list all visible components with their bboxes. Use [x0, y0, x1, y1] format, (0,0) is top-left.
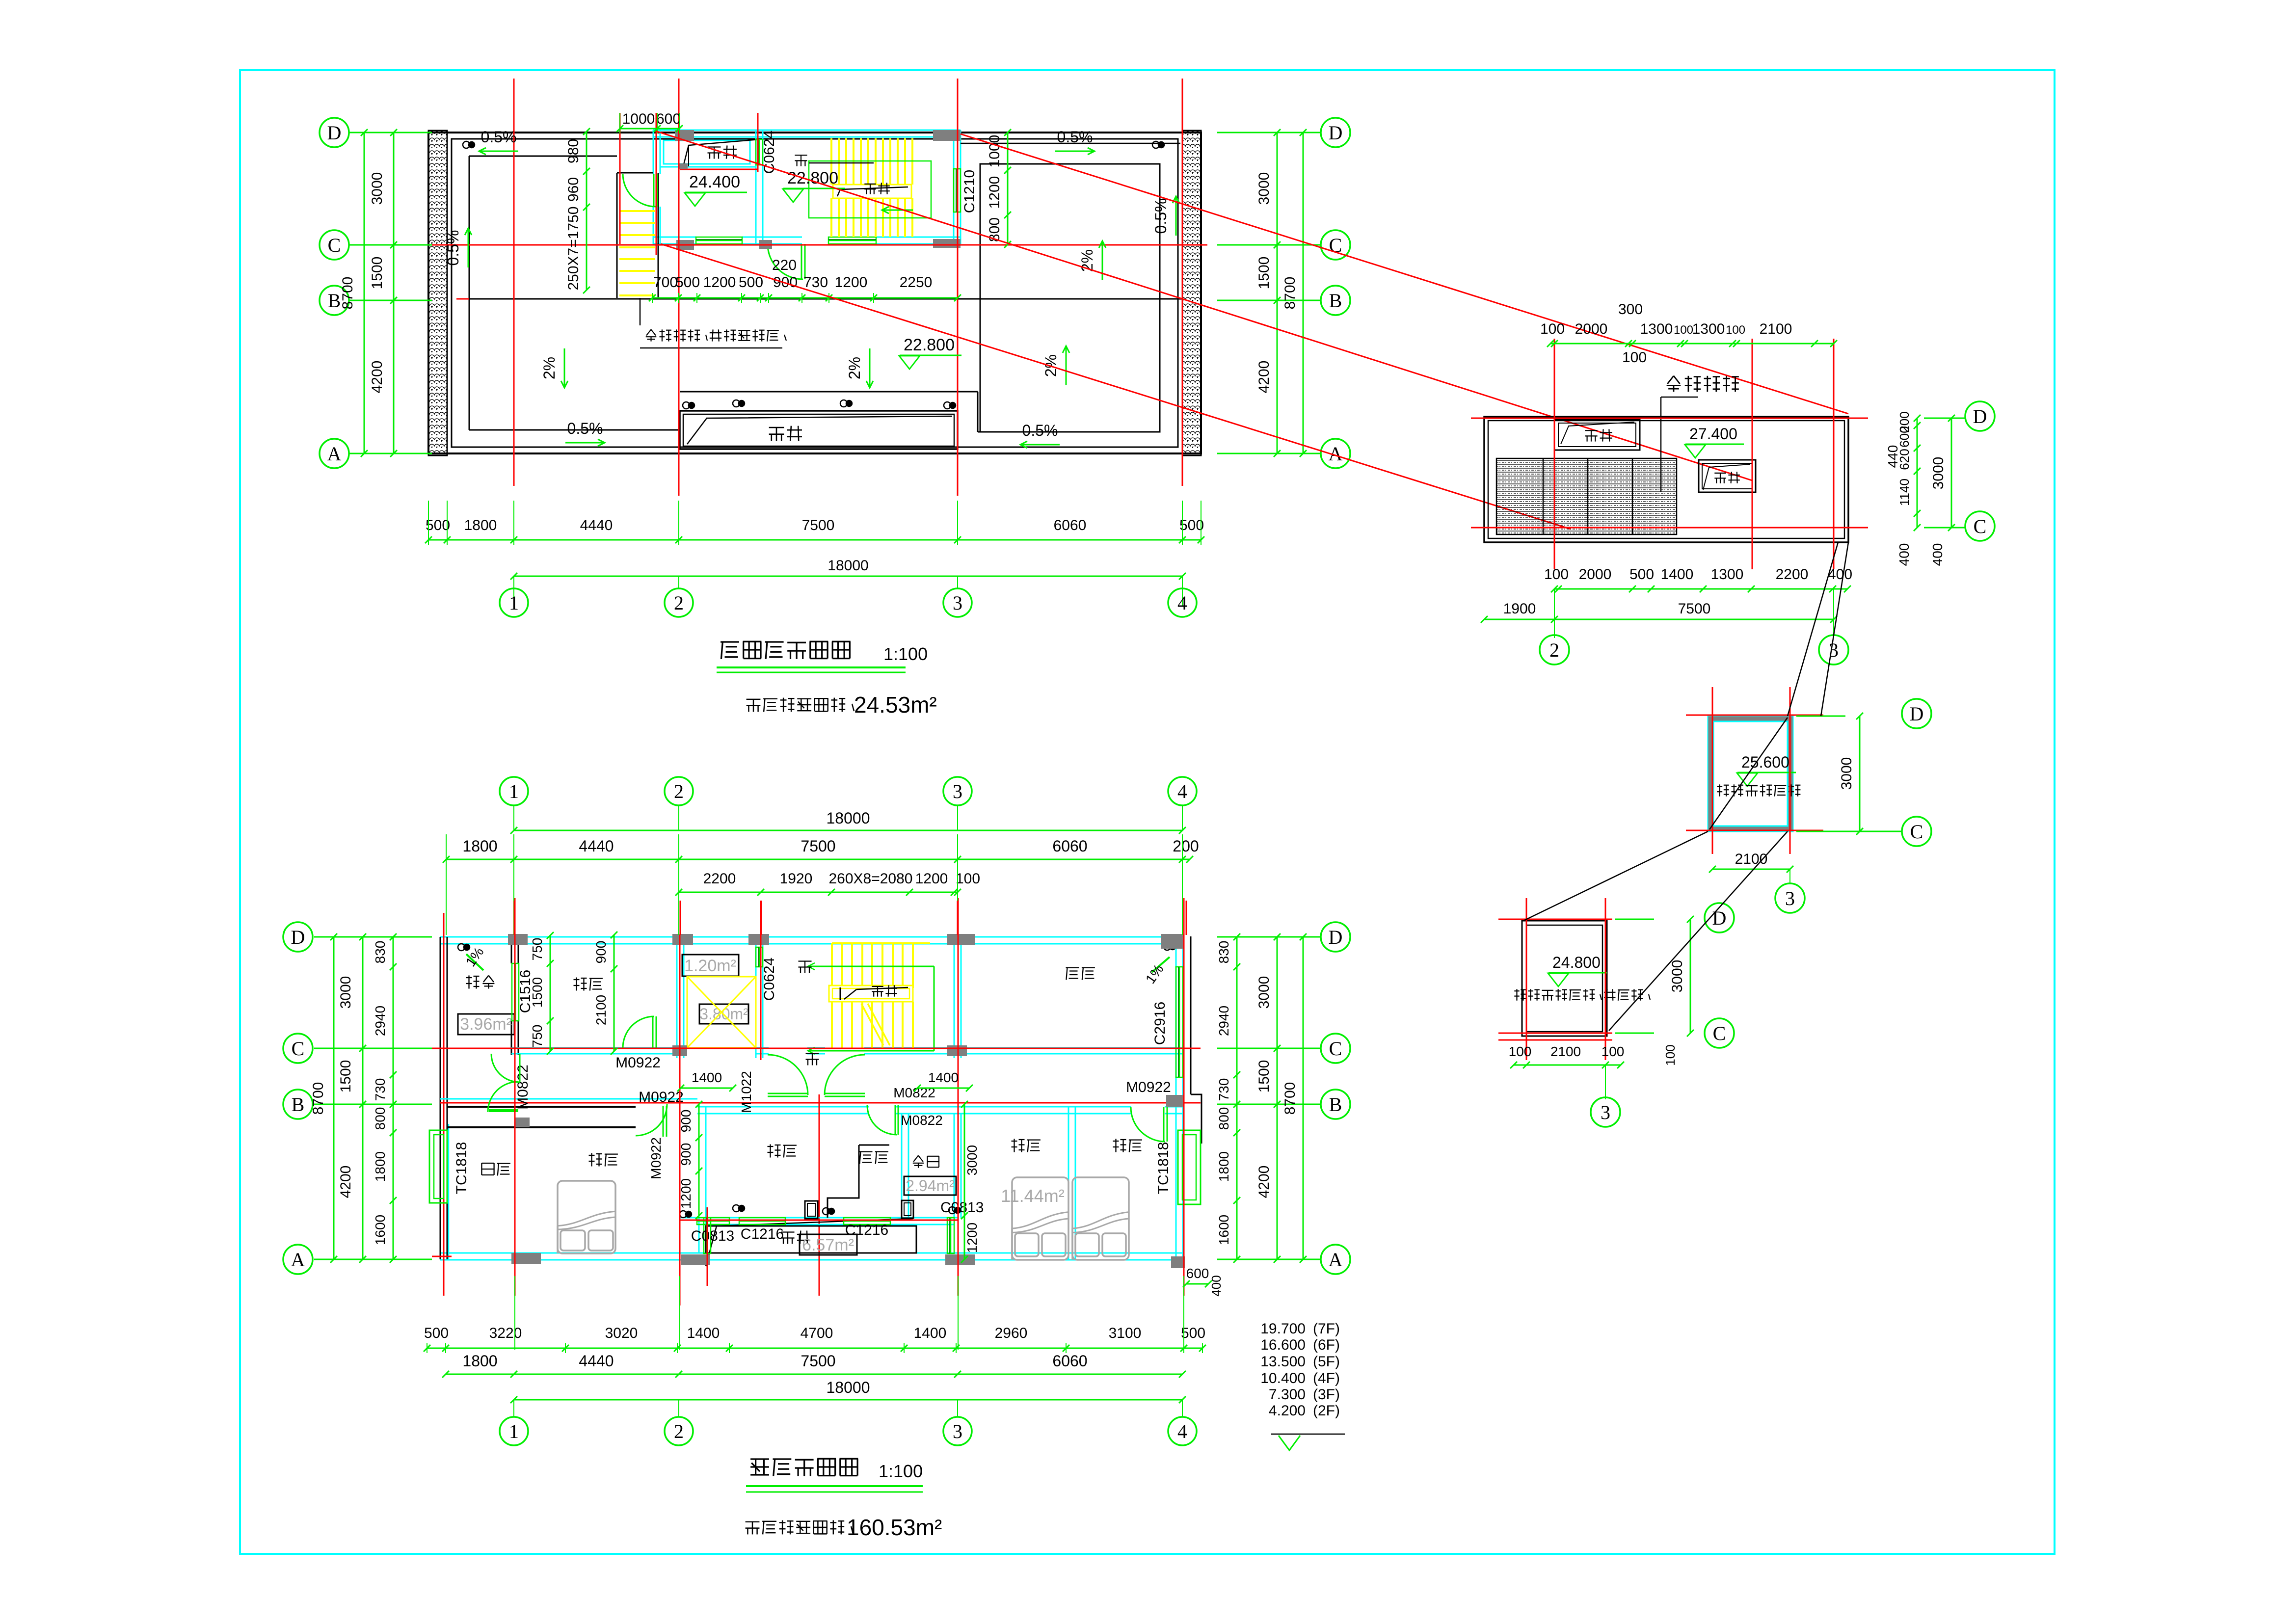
svg-text:4200: 4200	[369, 361, 385, 394]
svg-text:4: 4	[1177, 1420, 1187, 1442]
svg-text:B: B	[1329, 290, 1342, 312]
svg-text:440: 440	[1885, 445, 1900, 468]
svg-text:800: 800	[1216, 1107, 1231, 1130]
svg-text:2100: 2100	[1550, 1044, 1581, 1059]
svg-text:2%: 2%	[846, 357, 863, 379]
svg-text:750: 750	[530, 1025, 545, 1048]
svg-text:2: 2	[674, 780, 684, 802]
svg-text:C0813: C0813	[691, 1228, 734, 1244]
svg-text:400: 400	[1896, 543, 1912, 566]
svg-text:100: 100	[1602, 1044, 1625, 1059]
svg-text:100: 100	[1726, 323, 1745, 337]
svg-text:1400: 1400	[928, 1070, 959, 1085]
svg-text:C: C	[292, 1038, 305, 1060]
svg-text:A: A	[1329, 1249, 1343, 1271]
svg-text:900: 900	[678, 1143, 694, 1166]
svg-text:100: 100	[1544, 566, 1569, 583]
svg-text:4200: 4200	[1256, 1166, 1272, 1198]
svg-text:7500: 7500	[801, 837, 835, 855]
svg-text:1600: 1600	[373, 1215, 388, 1245]
svg-text:8700: 8700	[1282, 277, 1298, 310]
svg-text:18000: 18000	[828, 558, 868, 574]
svg-text:2: 2	[674, 1420, 684, 1442]
svg-text:1: 1	[509, 1420, 519, 1442]
svg-text:11.44m²: 11.44m²	[1001, 1186, 1064, 1206]
svg-text:2250: 2250	[900, 274, 933, 291]
svg-text:0.5%: 0.5%	[1152, 198, 1170, 234]
svg-text:3000: 3000	[1256, 172, 1272, 205]
svg-text:900: 900	[678, 1110, 694, 1133]
svg-text:3100: 3100	[1109, 1325, 1142, 1341]
svg-text:(3F): (3F)	[1313, 1386, 1340, 1403]
svg-text:1%: 1%	[1143, 961, 1167, 986]
svg-text:3000: 3000	[338, 976, 354, 1009]
svg-text:(5F): (5F)	[1313, 1354, 1340, 1370]
svg-text:2%: 2%	[540, 357, 558, 379]
svg-text:3000: 3000	[1930, 457, 1947, 490]
svg-text:1000: 1000	[622, 111, 655, 127]
svg-text:160.53m²: 160.53m²	[847, 1515, 942, 1540]
svg-text:2940: 2940	[373, 1006, 388, 1036]
svg-text:2100: 2100	[593, 995, 609, 1025]
svg-text:600: 600	[1897, 426, 1912, 447]
svg-text:D: D	[1712, 907, 1727, 929]
svg-text:1800: 1800	[1216, 1151, 1231, 1182]
svg-text:8700: 8700	[310, 1082, 326, 1115]
svg-text:100: 100	[1663, 1044, 1678, 1065]
svg-text:0.5%: 0.5%	[444, 230, 462, 266]
svg-text:0.5%: 0.5%	[1022, 422, 1058, 439]
svg-text:1200: 1200	[703, 274, 736, 291]
svg-text:1: 1	[509, 592, 519, 614]
svg-text:1500: 1500	[530, 977, 545, 1008]
svg-text:500: 500	[1179, 517, 1204, 533]
svg-text:7500: 7500	[802, 517, 835, 533]
svg-text:4200: 4200	[338, 1166, 354, 1198]
svg-text:3000: 3000	[1669, 960, 1685, 993]
svg-text:(7F): (7F)	[1313, 1321, 1340, 1337]
svg-text:7500: 7500	[1678, 601, 1711, 617]
svg-text:830: 830	[373, 941, 388, 964]
svg-text:1: 1	[509, 780, 519, 802]
svg-text:800: 800	[373, 1107, 388, 1130]
svg-text:18000: 18000	[827, 1379, 870, 1396]
svg-text:600: 600	[656, 111, 681, 127]
svg-text:B: B	[292, 1093, 305, 1116]
svg-text:24.400: 24.400	[689, 173, 740, 191]
svg-text:1500: 1500	[1256, 257, 1272, 290]
svg-text:200: 200	[1173, 837, 1199, 855]
svg-text:500: 500	[739, 274, 763, 291]
svg-text:D: D	[1329, 122, 1343, 144]
svg-text:2: 2	[1549, 639, 1559, 661]
svg-text:D: D	[1329, 926, 1343, 948]
svg-text:3000: 3000	[1256, 976, 1272, 1009]
svg-text:3: 3	[1785, 887, 1795, 909]
svg-text:4700: 4700	[801, 1325, 833, 1341]
svg-text:100: 100	[1622, 349, 1647, 366]
svg-text:M0922: M0922	[648, 1137, 664, 1179]
svg-text:C: C	[1974, 515, 1987, 537]
svg-text:1400: 1400	[687, 1325, 720, 1341]
svg-text:D: D	[1973, 405, 1987, 427]
svg-text:6060: 6060	[1054, 517, 1087, 533]
svg-text:C0624: C0624	[761, 958, 777, 1001]
svg-text:500: 500	[675, 274, 700, 291]
svg-text:220: 220	[772, 257, 797, 273]
svg-text:980: 980	[565, 139, 582, 163]
svg-text:4440: 4440	[579, 837, 614, 855]
svg-text:D: D	[327, 122, 342, 144]
svg-text:10.400: 10.400	[1260, 1370, 1306, 1386]
svg-text:1900: 1900	[1503, 601, 1536, 617]
svg-text:1500: 1500	[369, 257, 385, 290]
svg-text:600: 600	[1186, 1266, 1209, 1281]
svg-text:1300: 1300	[1640, 321, 1673, 337]
svg-text:6060: 6060	[1052, 1352, 1087, 1370]
svg-text:3: 3	[953, 592, 962, 614]
svg-text:400: 400	[1930, 543, 1945, 566]
svg-text:100: 100	[1540, 321, 1565, 337]
svg-text:1200: 1200	[987, 176, 1003, 209]
svg-text:1200: 1200	[964, 1223, 980, 1253]
svg-text:(4F): (4F)	[1313, 1370, 1340, 1386]
svg-text:1400: 1400	[914, 1325, 947, 1341]
svg-text:1500: 1500	[338, 1060, 354, 1093]
svg-text:2: 2	[674, 592, 684, 614]
svg-text:B: B	[1329, 1093, 1342, 1116]
svg-text:400: 400	[1209, 1275, 1224, 1296]
svg-text:750: 750	[530, 938, 545, 961]
svg-text:B: B	[328, 290, 341, 312]
svg-text:0.5%: 0.5%	[567, 420, 603, 437]
svg-text:M0922: M0922	[1126, 1079, 1171, 1095]
svg-text:2100: 2100	[1760, 321, 1792, 337]
svg-text:4: 4	[1177, 780, 1187, 802]
svg-text:100: 100	[1509, 1044, 1532, 1059]
svg-text:3000: 3000	[964, 1145, 980, 1175]
svg-text:1400: 1400	[1661, 566, 1694, 583]
svg-text:M0922: M0922	[615, 1055, 661, 1071]
svg-text:25.600: 25.600	[1741, 753, 1789, 771]
svg-text:400: 400	[1828, 566, 1852, 583]
svg-text:(2F): (2F)	[1313, 1403, 1340, 1419]
svg-text:1500: 1500	[1256, 1060, 1272, 1093]
svg-text:(6F): (6F)	[1313, 1337, 1340, 1353]
svg-text:13.500: 13.500	[1260, 1354, 1306, 1370]
svg-text:C: C	[1910, 821, 1923, 843]
svg-text:C1210: C1210	[961, 170, 978, 213]
svg-text:4: 4	[1177, 592, 1187, 614]
svg-text:3000: 3000	[369, 172, 385, 205]
svg-text:900: 900	[593, 941, 609, 964]
svg-text:1000: 1000	[987, 135, 1003, 168]
svg-text:1140: 1140	[1897, 479, 1912, 506]
svg-text:4.200: 4.200	[1269, 1403, 1306, 1419]
svg-text:4200: 4200	[1256, 361, 1272, 394]
svg-text:3: 3	[953, 780, 962, 802]
svg-text:1400: 1400	[692, 1070, 722, 1085]
svg-text:24.800: 24.800	[1552, 954, 1601, 971]
svg-text:M0822: M0822	[515, 1065, 531, 1110]
svg-text:C2916: C2916	[1152, 1002, 1168, 1045]
svg-text:1800: 1800	[464, 517, 497, 533]
svg-text:3220: 3220	[489, 1325, 522, 1341]
svg-text:2000: 2000	[1575, 321, 1608, 337]
svg-text:1800: 1800	[462, 1352, 497, 1370]
svg-text:300: 300	[1618, 301, 1643, 318]
svg-text:A: A	[327, 443, 342, 465]
svg-text:1.20m²: 1.20m²	[684, 957, 736, 975]
svg-text:TC1818: TC1818	[454, 1142, 470, 1195]
svg-text:C1216: C1216	[741, 1226, 784, 1242]
svg-text:1300: 1300	[1692, 321, 1725, 337]
svg-text:C0813: C0813	[940, 1199, 984, 1216]
svg-text:500: 500	[424, 1325, 449, 1341]
svg-text:4440: 4440	[580, 517, 613, 533]
svg-text:D: D	[291, 926, 305, 948]
svg-text:M1022: M1022	[739, 1071, 754, 1113]
svg-text:100: 100	[956, 871, 980, 887]
svg-text:6060: 6060	[1052, 837, 1087, 855]
svg-text:3: 3	[953, 1420, 962, 1442]
svg-text:3000: 3000	[1839, 757, 1855, 790]
svg-text:3: 3	[1601, 1101, 1610, 1123]
svg-text:2000: 2000	[1579, 566, 1612, 583]
svg-text:1:100: 1:100	[879, 1461, 923, 1481]
svg-text:800: 800	[987, 217, 1003, 242]
svg-text:700: 700	[653, 274, 678, 291]
svg-text:C: C	[328, 234, 341, 256]
svg-text:730: 730	[373, 1078, 388, 1101]
svg-text:100: 100	[1674, 323, 1693, 337]
svg-text:960: 960	[565, 177, 582, 202]
svg-text:730: 730	[803, 274, 828, 291]
svg-text:2.94m²: 2.94m²	[906, 1177, 955, 1195]
svg-text:M0822: M0822	[901, 1113, 943, 1128]
svg-text:1920: 1920	[780, 871, 813, 887]
svg-text:2960: 2960	[995, 1325, 1028, 1341]
svg-text:1:100: 1:100	[883, 644, 928, 664]
svg-text:1200: 1200	[835, 274, 868, 291]
svg-text:M0922: M0922	[639, 1089, 684, 1105]
svg-text:6.57m²: 6.57m²	[802, 1236, 854, 1254]
svg-text:3020: 3020	[605, 1325, 638, 1341]
svg-text:830: 830	[1216, 941, 1231, 964]
svg-text:260X8=2080: 260X8=2080	[828, 871, 912, 887]
svg-text:C: C	[1329, 1038, 1342, 1060]
svg-text:D: D	[1910, 703, 1924, 725]
svg-text:2200: 2200	[1776, 566, 1809, 583]
svg-text:1200: 1200	[915, 871, 948, 887]
svg-text:1800: 1800	[462, 837, 497, 855]
svg-text:7500: 7500	[801, 1352, 835, 1370]
svg-text:C: C	[1713, 1022, 1726, 1044]
svg-text:1600: 1600	[1216, 1215, 1231, 1245]
svg-text:24.53m²: 24.53m²	[854, 692, 937, 718]
svg-text:16.600: 16.600	[1260, 1337, 1306, 1353]
svg-text:TC1818: TC1818	[1155, 1142, 1172, 1195]
svg-text:0.5%: 0.5%	[1057, 128, 1093, 146]
svg-text:A: A	[291, 1249, 305, 1271]
svg-text:500: 500	[1629, 566, 1654, 583]
svg-text:500: 500	[1181, 1325, 1205, 1341]
svg-text:2200: 2200	[703, 871, 736, 887]
svg-text:4440: 4440	[579, 1352, 614, 1370]
svg-text:22.800: 22.800	[787, 169, 838, 187]
svg-text:19.700: 19.700	[1260, 1321, 1306, 1337]
svg-text:18000: 18000	[827, 809, 870, 827]
svg-text:1800: 1800	[373, 1151, 388, 1182]
svg-text:3.96m²: 3.96m²	[460, 1015, 512, 1034]
svg-text:500: 500	[426, 517, 450, 533]
svg-text:27.400: 27.400	[1689, 425, 1737, 443]
svg-text:0.5%: 0.5%	[481, 128, 517, 146]
svg-text:8700: 8700	[340, 277, 356, 310]
svg-text:1200: 1200	[678, 1178, 694, 1209]
svg-text:1300: 1300	[1711, 566, 1744, 583]
svg-text:730: 730	[1216, 1078, 1231, 1101]
svg-text:2940: 2940	[1216, 1006, 1231, 1036]
svg-text:250X7=1750: 250X7=1750	[565, 206, 582, 290]
svg-text:22.800: 22.800	[904, 336, 955, 354]
svg-text:8700: 8700	[1282, 1082, 1298, 1115]
svg-text:C1216: C1216	[845, 1222, 888, 1238]
svg-text:7.300: 7.300	[1269, 1386, 1306, 1403]
